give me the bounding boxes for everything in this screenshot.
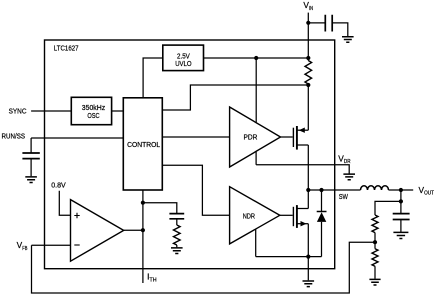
ground (CIN) <box>342 37 354 43</box>
wire CONTROL to VIN rail (top gate drive) <box>162 85 308 110</box>
capacitor CC compensation <box>169 214 184 219</box>
pin VFB label <box>17 240 28 252</box>
wire UVLO to CONTROL top <box>143 58 163 98</box>
svg-text:PDR: PDR <box>244 133 258 142</box>
transistor Q2 NMOS gate wire <box>280 214 293 216</box>
junction dot resistor bottom <box>306 83 310 87</box>
svg-text:SW: SW <box>339 192 349 201</box>
junction dot UVLO wire / PDR drop <box>254 56 258 60</box>
op-amp driver NDR <box>230 187 280 244</box>
wire NDR bottom rail drop <box>255 229 257 256</box>
op-amp error amplifier EA <box>71 200 124 262</box>
wire comp network <box>143 203 177 214</box>
pin SW wire to inductor <box>308 189 360 191</box>
pin ITH label <box>147 271 157 283</box>
svg-text:RUN/SS: RUN/SS <box>2 132 26 141</box>
resistor R2 feedback bottom <box>372 249 378 267</box>
IC boundary box LTC1627 <box>45 40 335 269</box>
capacitor COUT <box>393 214 410 220</box>
wire Q1 drain to SW <box>307 145 309 190</box>
wire VIN vertical into IC <box>307 13 309 61</box>
label LTC1627 <box>54 44 79 53</box>
svg-text:FB: FB <box>22 246 28 252</box>
diode D1 schottky <box>321 190 323 211</box>
wire PDR bottom rail to VDR <box>255 152 257 165</box>
op-amp driver PDR <box>230 107 281 167</box>
wire VOUT down to COUT <box>400 190 402 214</box>
wire SYNC to OSC <box>31 110 71 112</box>
wire drop to PDR top edge <box>255 58 257 122</box>
wire VOUT tap to divider <box>375 201 401 215</box>
pin VDR wire <box>256 165 349 174</box>
junction dot EA output <box>141 228 145 232</box>
ground (VDR) <box>343 174 355 180</box>
wire R1 to R2 <box>374 233 376 249</box>
svg-text:DR: DR <box>344 159 351 165</box>
ground (COUT) <box>393 232 408 238</box>
svg-text:OSC: OSC <box>87 111 99 120</box>
junction dot VOUT node <box>399 188 403 192</box>
junction dot rail/ground <box>306 255 310 259</box>
wire EA output to ITH <box>124 229 143 231</box>
inductor L1 <box>361 186 389 190</box>
wire OSC to CONTROL <box>112 110 124 112</box>
svg-text:TH: TH <box>150 277 157 283</box>
resistor RC compensation <box>174 225 181 245</box>
capacitor CIN <box>325 15 332 32</box>
svg-text:0.8V: 0.8V <box>51 180 66 189</box>
svg-text:LTC1627: LTC1627 <box>54 44 79 53</box>
resistor (VIN sense) <box>305 61 312 85</box>
svg-text:OUT: OUT <box>424 191 435 197</box>
node 0.8V reference label <box>51 180 66 189</box>
junction dot feedback divider <box>373 240 377 244</box>
wire ITH vertical <box>142 190 144 283</box>
ground (CSS) <box>25 177 37 183</box>
wire CIN to ground <box>332 23 348 36</box>
ground (comp) <box>171 248 183 254</box>
wire RUN/SS to CSS <box>30 138 32 153</box>
junction dot ITH/comp <box>141 201 145 205</box>
block CONTROL <box>123 98 162 190</box>
wire CONTROL to PDR input <box>162 136 229 138</box>
pin SYNC label <box>9 107 27 116</box>
svg-text:SYNC: SYNC <box>9 107 27 116</box>
junction dot SW node <box>306 188 310 192</box>
junction dot divider tap <box>399 199 403 203</box>
wire rail to ground <box>307 257 309 281</box>
svg-text:IN: IN <box>309 6 313 12</box>
ground (power rail) <box>303 281 315 287</box>
wire CONTROL to NDR input <box>162 165 229 215</box>
block 350kHz OSC <box>71 97 111 124</box>
wire VIN to CIN <box>308 22 325 24</box>
pin VDR label <box>338 153 350 165</box>
node VIN label <box>303 0 313 12</box>
transistor Q2 NMOS <box>292 207 294 226</box>
ground (divider) <box>369 279 380 285</box>
wire inductor to VOUT <box>389 189 414 191</box>
resistor R1 feedback top <box>372 215 378 233</box>
pin SW label <box>339 192 349 201</box>
wire Q2 drain to SW <box>307 190 309 209</box>
wire Q2 source to rail <box>307 224 309 257</box>
svg-text:NDR: NDR <box>243 211 255 220</box>
wire RUN/SS to CONTROL <box>31 137 123 139</box>
wire UVLO to VIN rail <box>204 57 309 59</box>
junction dot VIN / resistor top <box>306 56 310 60</box>
block 2.5V UVLO <box>163 45 204 71</box>
svg-text:CONTROL: CONTROL <box>127 140 160 149</box>
junction dot VIN/CIN <box>306 21 310 25</box>
wire resistor bottom to PMOS source <box>307 84 309 130</box>
wire bottom rail <box>256 256 322 258</box>
junction dot SW/diode <box>319 188 323 192</box>
node VOUT label <box>419 185 435 197</box>
svg-text:UVLO: UVLO <box>175 59 192 68</box>
capacitor CSS <box>22 153 39 159</box>
pin VFB wire <box>32 244 71 246</box>
wire 0.8V to error amp + <box>59 191 70 216</box>
transistor Q1 PMOS gate wire <box>281 136 293 138</box>
transistor Q1 PMOS <box>292 128 294 147</box>
pin RUN/SS label <box>2 132 26 141</box>
wire feedback return to VFB <box>32 242 376 293</box>
